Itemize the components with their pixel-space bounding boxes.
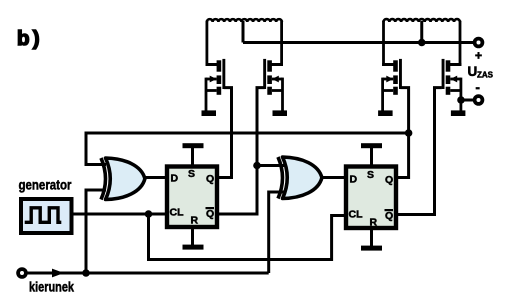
inductor L2 (right, center-tapped) <box>384 19 460 22</box>
wire drain T1 <box>205 21 208 66</box>
generator square wave symbol <box>25 208 62 223</box>
wire drain T3 <box>382 21 385 66</box>
svg-text:+: + <box>475 49 482 63</box>
wire R pull of U2 <box>370 230 373 246</box>
flip-flop U1 <box>167 167 217 228</box>
flip-flop U2 <box>346 167 396 229</box>
node clock branch <box>145 210 153 218</box>
svg-text:S: S <box>188 168 195 180</box>
wire S pull of U2 <box>370 148 373 165</box>
svg-text:U: U <box>468 64 478 79</box>
power bar R of U2 <box>361 246 382 251</box>
svg-text:-: - <box>476 80 480 95</box>
wire generator output to CL of U1 <box>74 213 167 216</box>
wire S pull of U1 <box>191 148 194 165</box>
power bar S of U2 <box>361 143 382 148</box>
XOR gate G2 <box>278 157 322 199</box>
XOR gate G1 <box>101 158 145 200</box>
terminal kierunek <box>18 269 26 277</box>
node Q-bar U1 to XOR G2 <box>253 162 261 170</box>
wire node to XOR G2 top input <box>257 164 284 167</box>
svg-text:b): b) <box>17 27 43 50</box>
svg-text:CL: CL <box>349 209 364 221</box>
flip-flop U2 body <box>346 167 396 229</box>
power bar S of U1 <box>183 143 204 148</box>
svg-text:generator: generator <box>19 177 72 193</box>
node T4 source junction <box>457 96 465 104</box>
generator box <box>21 199 72 233</box>
wire - terminal to T4 source <box>461 99 474 102</box>
wire supply rail to + terminal <box>243 41 479 44</box>
wire gate T1 from Q of U1 <box>219 88 232 178</box>
transistor T4 (NMOS, mirrored) <box>442 59 466 116</box>
wire gate T3 from Q of U2 <box>398 88 409 178</box>
node Q U2 feedback junction <box>405 129 413 137</box>
svg-text:Q: Q <box>206 173 214 185</box>
svg-text:D: D <box>350 174 358 186</box>
transistor T3 (NMOS) <box>378 59 402 116</box>
transistor T2 (NMOS, mirrored) <box>263 59 287 116</box>
wire XOR G1 output to D of U1 <box>145 176 166 179</box>
svg-text:Q: Q <box>206 208 214 220</box>
wire R pull of U1 <box>191 229 194 245</box>
svg-text:Q: Q <box>385 210 393 222</box>
wire clock to CL of U2 <box>149 214 346 260</box>
wire L2 center tap <box>420 21 423 43</box>
svg-text:ZAS: ZAS <box>477 71 494 80</box>
wire XOR G1 bottom input from kierunek line <box>86 190 106 273</box>
svg-text:R: R <box>370 217 378 229</box>
wire gate T4 from Q-bar of U2 <box>398 88 442 215</box>
node kierunek branch to XOR G1 <box>82 269 90 277</box>
wire drain T2 <box>280 21 283 66</box>
wire XOR G2 bottom input from kierunek <box>269 192 284 273</box>
arrow kierunek direction <box>52 269 64 278</box>
svg-text:S: S <box>367 169 374 181</box>
wire L1 center tap <box>242 21 245 43</box>
svg-text:Q: Q <box>385 174 393 186</box>
wire gate T2 from Q-bar of U1 <box>219 88 265 214</box>
svg-text:CL: CL <box>170 207 185 219</box>
flip-flop U1 body <box>167 167 217 228</box>
svg-text:D: D <box>171 173 179 185</box>
inductor L1 (left, center-tapped) <box>207 19 282 22</box>
power bar R of U1 <box>183 245 204 250</box>
terminal - of UZAS <box>475 96 483 104</box>
wire XOR G2 output to D of U2 <box>322 176 345 179</box>
wire feedback Q U2 to XOR G1 top input <box>86 133 409 165</box>
wire drain T4 <box>459 21 462 66</box>
svg-text:kierunek: kierunek <box>29 279 74 295</box>
svg-text:R: R <box>191 215 199 227</box>
node L2 tap junction <box>418 39 426 47</box>
wire kierunek line <box>27 272 269 275</box>
transistor T1 (NMOS) <box>202 59 226 116</box>
terminal + of UZAS <box>475 39 483 47</box>
